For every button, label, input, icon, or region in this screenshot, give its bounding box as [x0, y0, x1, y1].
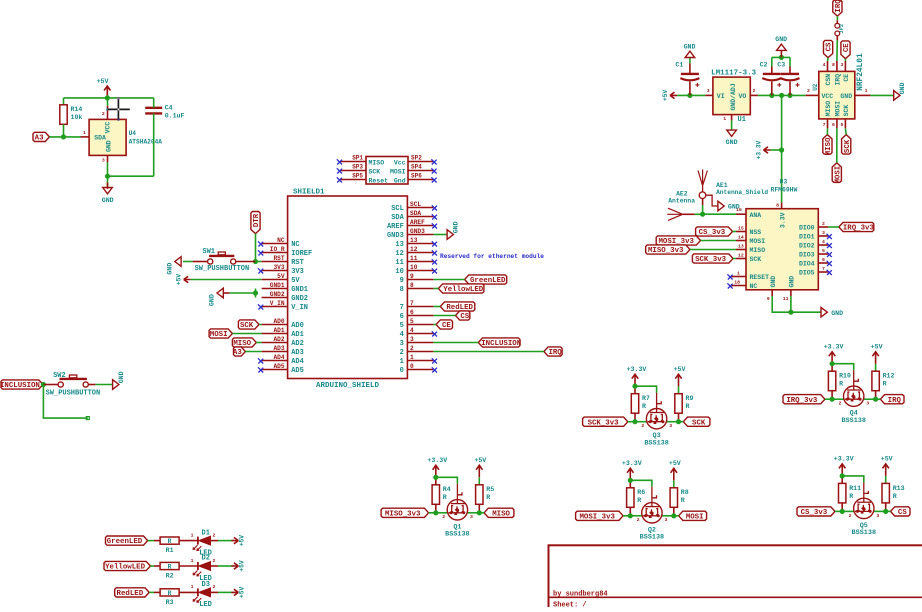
svg-text:+5V: +5V [239, 535, 246, 546]
pin U1 GND stub [731, 115, 733, 121]
svg-text:+3.3V: +3.3V [627, 366, 647, 373]
pin U2 MOSI stub [836, 119, 838, 128]
svg-text:Sheet: /: Sheet: / [553, 602, 587, 608]
pin U2 CSN stub [827, 61, 829, 71]
ground GND (U1) [727, 130, 737, 136]
pin SHIELD1 SCL stub [407, 207, 433, 209]
svg-text:IRQ: IRQ [888, 397, 902, 405]
svg-text:13: 13 [738, 244, 744, 250]
wire R3 to D3 [179, 591, 197, 593]
svg-text:CS_3v3: CS_3v3 [801, 509, 828, 517]
svg-text:SCK: SCK [240, 322, 254, 330]
svg-text:7: 7 [410, 300, 414, 307]
junction C2 node [769, 93, 774, 98]
wire Q2 3v3 resistor pin [629, 480, 631, 488]
pin SHIELD1 AD5 stub [262, 369, 288, 371]
gnd stub (shield) [224, 292, 230, 294]
svg-text:3: 3 [470, 514, 473, 520]
pin SHIELD1 4 stub [407, 333, 433, 335]
wire SW1 to GND [183, 261, 193, 263]
wire pin5 to CE [433, 324, 436, 326]
svg-text:IO_R: IO_R [270, 246, 285, 253]
title block frame [549, 545, 922, 612]
switch SW1 SW_PUSHBUTTON [208, 259, 213, 264]
pin SHIELD1 RST stub [262, 261, 288, 263]
pin SW1 left stub [193, 261, 208, 263]
svg-text:R: R [883, 381, 887, 388]
pin SHIELD1 5V stub [262, 279, 288, 281]
junction GND1/GND2 [253, 290, 258, 295]
power +5V (regulator input) [670, 92, 677, 98]
svg-text:GND/ADJ: GND/ADJ [730, 83, 737, 110]
svg-text:A3: A3 [35, 135, 44, 143]
wire Q5 resistor to row [841, 503, 843, 512]
resistor R3 [160, 589, 179, 596]
svg-text:R: R [839, 381, 843, 388]
svg-text:ATSHA204A: ATSHA204A [129, 139, 163, 146]
svg-text:3: 3 [102, 157, 105, 163]
svg-text:C3: C3 [777, 62, 785, 69]
resistor R13 [882, 483, 889, 503]
transistor Q5 BSS138 [854, 498, 874, 518]
svg-text:CS: CS [898, 509, 907, 517]
no-connect X pin NC [258, 241, 263, 246]
pin SHIELD1 10 stub [407, 270, 433, 272]
svg-text:R: R [486, 494, 490, 501]
svg-text:SW_PUSHBUTTON: SW_PUSHBUTTON [195, 265, 250, 273]
resistor R6 [627, 488, 634, 508]
svg-text:MISO: MISO [750, 247, 766, 254]
svg-text:SP2: SP2 [411, 155, 422, 162]
svg-text:R9: R9 [686, 395, 694, 402]
net label INCLUSION (SW2) [1, 380, 43, 389]
svg-text:VI: VI [717, 93, 725, 100]
power +5V LED row GreenLED [231, 537, 238, 543]
pin SW1 right stub [236, 261, 255, 263]
svg-text:2: 2 [641, 423, 644, 429]
svg-text:SCL: SCL [391, 205, 404, 213]
svg-text:R11: R11 [849, 485, 861, 492]
net label YellowLED (pin 8) [438, 284, 484, 293]
net label SCK (U2) [842, 135, 851, 155]
wire C1 top stub [689, 63, 691, 74]
svg-text:14: 14 [738, 235, 744, 241]
title block divider line [549, 596, 922, 598]
no-connect X pin 10 [432, 268, 437, 273]
svg-text:+5V: +5V [674, 366, 686, 373]
junction Q1 right [477, 510, 482, 515]
wire GreenLED to R1 [148, 540, 154, 542]
svg-text:SW1: SW1 [202, 248, 215, 256]
svg-text:3: 3 [410, 336, 414, 343]
pin SHIELD1 2 stub [407, 351, 433, 353]
wire C1 bottom stub [689, 82, 691, 96]
op-amp U4 ATSHA204A body [89, 119, 126, 155]
pin D1 anode stub [211, 540, 219, 542]
svg-text:NC: NC [277, 237, 285, 244]
svg-text:BSS138: BSS138 [841, 417, 865, 425]
pin U3 DIO4 stub [818, 262, 828, 264]
svg-text:R: R [443, 494, 447, 501]
svg-text:MISO_3v3: MISO_3v3 [385, 510, 421, 518]
pin U3 SCK stub [736, 258, 746, 260]
wire Q5 3v3 resistor pin [841, 476, 843, 484]
wire U3 gnd9 bend [772, 296, 791, 312]
wire gnd bracket [772, 56, 790, 58]
wire Q4 resistor to row right [875, 391, 877, 400]
svg-text:DIO3: DIO3 [799, 252, 815, 259]
svg-text:5: 5 [400, 322, 404, 330]
no-connect X SP3 [337, 168, 342, 173]
pin JP2 top stub [836, 20, 838, 23]
junction U3 gnd node [788, 310, 793, 315]
svg-text:AD1: AD1 [273, 327, 284, 334]
LED D1 [197, 537, 199, 545]
svg-text:R: R [642, 403, 646, 410]
svg-text:GND: GND [209, 294, 216, 306]
svg-text:7: 7 [823, 122, 826, 128]
wire Q2 gate net [630, 480, 652, 487]
wire SCK_3v3 to junction [628, 421, 635, 423]
wire Q1 5V to resistor [478, 477, 480, 485]
no-connect X U3 DIO2 [827, 243, 832, 248]
net label MISO (U2) [823, 135, 832, 155]
svg-text:11: 11 [410, 255, 418, 262]
resistor R1 [160, 537, 179, 544]
pin SHIELD1 0 stub [407, 369, 433, 371]
svg-text:R: R [681, 497, 685, 504]
svg-text:GND: GND [770, 276, 777, 288]
svg-text:DTR: DTR [253, 213, 261, 227]
wire 3.3V down to RFM [781, 95, 783, 150]
svg-text:SW2: SW2 [53, 372, 66, 380]
svg-text:2: 2 [213, 584, 216, 590]
svg-text:R8: R8 [681, 489, 689, 496]
svg-text:1: 1 [723, 116, 726, 122]
svg-text:CE: CE [843, 74, 850, 82]
capacitor C3 [781, 73, 799, 75]
svg-text:GND: GND [831, 310, 843, 317]
junction +5V node [105, 95, 110, 100]
power +5V top-left [104, 86, 110, 98]
wire junction to MOSI [674, 515, 679, 517]
svg-text:IRQ_3v3: IRQ_3v3 [786, 397, 818, 405]
power +5V Q1 [476, 465, 482, 477]
pin SHIELD1 9 stub [407, 279, 433, 281]
svg-text:MISO: MISO [825, 101, 832, 117]
net label MOSI (AD1) [209, 329, 232, 338]
ground GND (C2 C3) [777, 44, 787, 50]
svg-text:0: 0 [400, 367, 404, 375]
svg-text:AD5: AD5 [291, 367, 304, 375]
svg-text:+5V: +5V [662, 90, 669, 101]
pin SW2 right stub [88, 384, 95, 386]
wire Q3 5V to resistor [678, 386, 680, 394]
pin U2 MISO stub [827, 119, 829, 128]
junction Q2 gate/3.3V [628, 478, 633, 483]
wire Q3 drain row [666, 421, 678, 423]
svg-text:RedLED: RedLED [117, 590, 144, 598]
antenna AE1 Antenna_Shield [698, 170, 707, 186]
wire junction to IRQ [876, 398, 881, 400]
svg-text:5V: 5V [291, 277, 300, 285]
wire Q1 3v3 resistor pin [435, 477, 437, 485]
svg-text:3: 3 [841, 62, 844, 68]
svg-text:Vcc: Vcc [394, 159, 406, 166]
svg-text:6: 6 [400, 313, 404, 321]
svg-text:DIO5: DIO5 [799, 270, 815, 277]
svg-text:VCC: VCC [105, 122, 112, 134]
no-connect X pin AREF [432, 223, 437, 228]
svg-text:DIO1: DIO1 [799, 234, 815, 241]
svg-text:SCK_3v3: SCK_3v3 [695, 256, 727, 264]
gnd stub C2C3 [780, 51, 782, 58]
pin SHIELD1 12 stub [407, 252, 433, 254]
net label MISO [484, 508, 514, 517]
wire CS_3v3 to U3 NSS [733, 231, 737, 233]
LED D2 [197, 562, 199, 570]
svg-text:CS_3v3: CS_3v3 [699, 229, 726, 237]
power +5V Q5 [883, 464, 889, 476]
no-connect X pin AD4 [258, 358, 263, 363]
antenna AE2 [667, 208, 683, 220]
svg-text:R2: R2 [166, 573, 174, 580]
ground GND (C1) [685, 51, 695, 57]
pin SHIELD1 AD0 stub [262, 324, 288, 326]
wire Q5 resistor to row right [885, 503, 887, 512]
wire pin2 to IRQ [433, 351, 544, 353]
wire D3 to +5V [218, 591, 234, 593]
resistor R12 [872, 371, 879, 391]
svg-text:CSN: CSN [825, 74, 832, 86]
radio module U2 NRF24L01 body [819, 71, 855, 119]
svg-text:9: 9 [400, 277, 404, 285]
wire C3 top stub [789, 67, 791, 74]
wire U2 MOSI to label [836, 128, 838, 163]
wire JP2 to U2 IRQ [836, 40, 838, 61]
svg-text:2: 2 [400, 349, 404, 357]
svg-text:SP5: SP5 [352, 173, 363, 180]
wire Q5 gate net [842, 476, 864, 483]
pin U3 GND stub 11 [790, 290, 792, 296]
svg-text:GND: GND [726, 139, 738, 146]
svg-text:1: 1 [191, 532, 194, 538]
svg-text:+5V: +5V [881, 456, 893, 463]
wire +5V to R14 [63, 98, 65, 105]
svg-text:GND: GND [789, 276, 796, 288]
svg-text:LM1117-3.3: LM1117-3.3 [711, 70, 757, 78]
no-connect X SP2 [431, 159, 436, 164]
svg-text:BSS138: BSS138 [640, 533, 664, 541]
wire MISO label to AD2 [256, 342, 261, 344]
wire Q2 5V to resistor [673, 480, 675, 488]
wire +5V to U1 VI [677, 94, 705, 96]
resistor R14 [60, 105, 67, 125]
svg-text:AD5: AD5 [273, 363, 284, 370]
svg-text:10: 10 [395, 268, 403, 276]
svg-text:9: 9 [767, 296, 770, 302]
wire antenna net [703, 213, 736, 215]
pin AE1 stub [702, 199, 704, 206]
svg-text:GND3: GND3 [387, 232, 404, 240]
net label CE (U2) [841, 41, 850, 59]
svg-text:GND: GND [728, 203, 740, 210]
svg-text:SP6: SP6 [411, 173, 422, 180]
svg-text:2: 2 [213, 532, 216, 538]
pin SHIELD1 GND3 stub [407, 234, 433, 236]
ground GND (GND1/GND2) [217, 288, 223, 298]
pin U2 IRQ stub [836, 61, 838, 71]
svg-text:U1: U1 [738, 116, 746, 124]
wire Q4 gate net [832, 364, 854, 371]
no-connect X U3 RESET [727, 274, 732, 279]
svg-text:2: 2 [102, 111, 105, 117]
svg-text:2: 2 [753, 88, 756, 94]
net label CS (pin 6) [456, 311, 470, 320]
pin SHIELD1 AD3 stub [262, 351, 288, 353]
wire Q3 resistor to row right [678, 413, 680, 422]
power +5V Q2 [671, 468, 677, 480]
svg-text:R: R [168, 563, 172, 570]
svg-text:MISO_3v3: MISO_3v3 [648, 247, 684, 255]
svg-text:SCL: SCL [410, 201, 421, 208]
net label IRQ (U2) [833, 0, 842, 16]
junction antenna node [700, 212, 705, 217]
wire Q4 resistor to row [831, 391, 833, 400]
svg-text:4: 4 [410, 327, 414, 334]
svg-text:7: 7 [400, 304, 404, 312]
wire SCK_3v3 to U3 SCK [733, 258, 736, 260]
net label SCK [683, 417, 710, 426]
wire Q2 gate lead [651, 487, 653, 497]
svg-text:11: 11 [783, 296, 789, 302]
net label MOSI [679, 511, 707, 520]
svg-text:GND: GND [840, 93, 852, 100]
connector ICSP body [366, 157, 408, 185]
junction Q3 right [676, 419, 681, 424]
svg-text:SDA: SDA [410, 210, 421, 217]
no-connect X pin SDA [432, 214, 437, 219]
wire CE label to CE [844, 59, 846, 61]
pin SHIELD1 AD2 stub [262, 342, 288, 344]
pin SHIELD1 6 stub [407, 315, 433, 317]
wire Q1 resistor to row right [478, 504, 480, 513]
svg-text:0.1uF: 0.1uF [165, 112, 185, 119]
svg-text:SCK: SCK [692, 419, 706, 427]
svg-text:AD4: AD4 [291, 358, 304, 366]
resistor R10 [828, 371, 835, 391]
wire R2 to D2 [179, 565, 197, 567]
wire pin9 to GreenLED [433, 279, 464, 281]
pin SW2 left stub [43, 384, 57, 386]
svg-text:GND: GND [684, 43, 696, 50]
wire A3 label to SDA pin [49, 136, 80, 138]
wire DIO0 to IRQ_3v3 [828, 226, 839, 228]
svg-text:1: 1 [737, 271, 740, 277]
pin SHIELD1 AD4 stub [262, 360, 288, 362]
svg-text:C1: C1 [675, 62, 683, 69]
junction INCLUSION node [41, 382, 46, 387]
svg-text:0: 0 [410, 363, 414, 370]
svg-text:5: 5 [822, 248, 825, 254]
net label IRQ [880, 395, 904, 404]
svg-text:12: 12 [738, 253, 744, 259]
svg-text:R14: R14 [71, 106, 83, 113]
svg-text:CE: CE [843, 43, 851, 52]
svg-text:R4: R4 [443, 486, 451, 493]
svg-text:2: 2 [213, 558, 216, 564]
svg-text:GND: GND [105, 140, 112, 152]
svg-text:NC: NC [291, 241, 299, 249]
wire 3.3V rail to U3 [781, 150, 783, 203]
svg-text:3: 3 [400, 340, 404, 348]
power +5V Q4 [872, 352, 878, 364]
wire to GND symbol (shield) [229, 292, 255, 294]
net label IRQ_3v3 (U3) [839, 222, 874, 231]
pin SHIELD1 1 stub [407, 360, 433, 362]
pin R2 left stub [154, 565, 160, 567]
wire Q4 3v3 resistor pin [831, 364, 833, 372]
svg-text:NRF24L01: NRF24L01 [857, 53, 865, 91]
svg-text:+3.3V: +3.3V [427, 457, 447, 464]
svg-text:IRQ_3v3: IRQ_3v3 [843, 225, 875, 233]
power +3.3V Q5 [839, 464, 845, 476]
ground GND (SW2) [113, 380, 119, 390]
svg-text:IOREF: IOREF [291, 250, 312, 258]
net label SCK_3v3 [583, 417, 628, 426]
svg-text:RFM69HW: RFM69HW [771, 187, 798, 194]
svg-text:7: 7 [822, 266, 825, 272]
svg-text:GreenLED: GreenLED [107, 538, 143, 546]
pin SHIELD1 GND1 stub [262, 288, 288, 290]
pin U1 VO stub [750, 94, 758, 96]
net label CS (U2) [824, 40, 833, 57]
resistor R5 [476, 485, 483, 505]
ground GND (U3) [821, 307, 827, 317]
pin R3 left stub [154, 591, 160, 593]
power +3.3V Q1 [433, 465, 439, 477]
junction Q5 left [840, 509, 845, 514]
pin D2 anode stub [211, 565, 219, 567]
svg-text:R12: R12 [883, 373, 895, 380]
svg-text:AE2: AE2 [676, 190, 688, 197]
svg-text:R3: R3 [166, 599, 174, 606]
svg-text:MOSI: MOSI [210, 331, 228, 339]
wire +5V to 5V pin [191, 279, 262, 281]
wire C1 to GND [689, 58, 691, 64]
svg-text:GND1: GND1 [270, 282, 285, 289]
no-connect X pin IO_R [258, 250, 263, 255]
wire Q5 source row [842, 510, 854, 512]
ground GND3 [447, 230, 453, 240]
svg-text:+5V: +5V [176, 274, 183, 285]
pin SHIELD1 11 stub [407, 261, 433, 263]
wire Q1 resistor to row [435, 504, 437, 513]
pin U4 SDA stub [81, 136, 90, 138]
wire C4 top [153, 98, 155, 108]
svg-text:3V3: 3V3 [273, 264, 284, 271]
ground GND (SW1) [175, 257, 181, 267]
svg-text:R10: R10 [839, 373, 851, 380]
wire YellowLED to R2 [150, 565, 154, 567]
wire 3.3V rail [758, 94, 806, 96]
svg-text:3: 3 [707, 88, 710, 94]
power +3.3V Q2 [627, 468, 633, 480]
wire A3 label to AD3 [245, 351, 261, 353]
pin U3 DIO3 stub [818, 253, 828, 255]
pin D3 anode stub [211, 591, 219, 593]
power +5V LED row YellowLED [231, 563, 238, 569]
